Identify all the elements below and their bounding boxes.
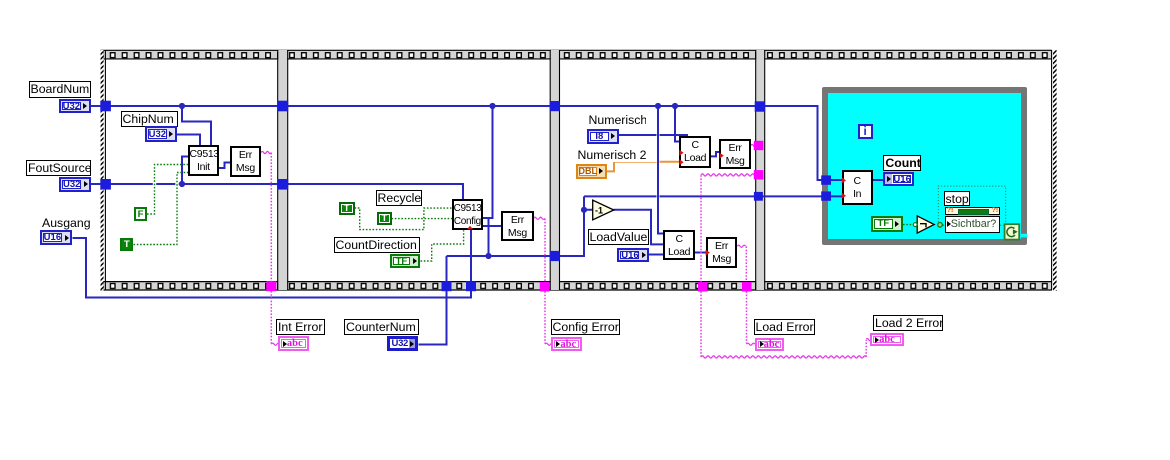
tunnel CounterNum sep34 — [754, 192, 763, 201]
tunnel Load2 Error bottom — [698, 282, 708, 292]
tunnel Ausgang bottom — [466, 281, 476, 291]
node Err Msg 2 frame3 — [706, 237, 737, 268]
red input arrow C Load1 b — [679, 159, 683, 165]
control terminal ChipNum U32 — [145, 126, 177, 141]
node C In — [842, 170, 873, 204]
label stop — [944, 191, 971, 207]
frame separator 1|2 — [278, 50, 288, 290]
indicator terminal Count U16 — [883, 172, 914, 186]
wire C9513 Config to Err Msg — [483, 225, 502, 227]
wire decrement to C Load 2 — [614, 210, 665, 245]
wire Recycle T to C9513 Config — [392, 218, 453, 220]
node Err Msg frame1 — [230, 146, 262, 177]
flat sequence structure: top film band — [101, 50, 1053, 59]
indicator terminal Load 2 Error abc — [870, 333, 904, 347]
wire BoardNum branch to C Load 2 — [658, 106, 664, 234]
tunnel CounterNum sep23 — [550, 251, 560, 261]
control label BoardNum — [29, 81, 92, 98]
tunnel BoardNum left border — [100, 101, 111, 112]
error wire Config ErrMsg to Config Error — [534, 217, 554, 345]
boolean constant T2 frame2 — [377, 212, 392, 225]
tunnel BoardNum sep12 — [278, 101, 289, 112]
indicator Sichtbar? — [945, 216, 1000, 234]
wire LoadValue to C Load 2 — [649, 254, 664, 256]
tunnel BoardNum sep34 — [755, 101, 765, 111]
red input arrow C In b — [842, 193, 846, 199]
control terminal Numerisch 2 DBL — [576, 164, 607, 179]
tunnel error sep34 upper — [754, 141, 764, 150]
wire BoardNum branch to C Load 1 — [675, 106, 680, 142]
tunnel Int Error bottom — [266, 281, 276, 291]
control label ChipNum — [121, 111, 178, 127]
node Err Msg frame2 — [501, 211, 534, 242]
red input arrow Err Msg1 — [720, 153, 724, 159]
control label Ausgang — [40, 215, 91, 231]
junction dots — [179, 103, 678, 259]
tunnel Config Error bottom — [540, 282, 550, 292]
wire TF to NOT gate — [903, 224, 913, 226]
wire boolean T to C9513 Init — [134, 173, 189, 245]
iteration terminal i — [858, 124, 873, 139]
red input arrow C Load1 a — [679, 150, 683, 156]
error wire tunnel to Load 2 Error — [701, 174, 871, 358]
boolean constant T1 frame2 — [339, 202, 355, 215]
while loop — [822, 87, 1027, 245]
stop cluster dotted frame — [938, 186, 1005, 225]
wire CounterNum net — [419, 196, 843, 344]
control terminal LoadValue U16 — [617, 248, 649, 263]
wire Numerisch I8 to C Load 1 — [619, 135, 688, 138]
tunnel FoutSource left border — [100, 179, 111, 190]
indicator terminal CounterNum U32 — [387, 336, 418, 351]
wire C Load 1 to Err Msg — [711, 152, 721, 156]
stop boolean bar — [945, 207, 1000, 215]
tunnel CounterNum bottom — [442, 281, 452, 291]
wire BoardNum main (U32) — [91, 105, 843, 180]
wire Numerisch 2 DBL to C Load 1 — [606, 162, 680, 172]
indicator terminal Load Error abc — [755, 338, 785, 352]
red input arrow C In a — [842, 177, 846, 183]
node Err Msg 1 frame3 — [719, 139, 750, 170]
frame separator 2|3 — [550, 50, 559, 290]
control label FoutSource — [26, 160, 91, 176]
wire BoardNum branch to C9513 Init — [182, 106, 211, 146]
wire boolean T1 to C9513 Config — [355, 208, 453, 230]
boolean terminal TF loop — [871, 216, 903, 232]
wire FoutSource (U32) — [91, 157, 464, 200]
error wire Load2 ErrMsg to Load Error — [737, 245, 755, 345]
indicator label Load Error — [754, 319, 815, 335]
control terminal Numerisch I8 — [587, 129, 619, 144]
node C Load 2 — [663, 230, 695, 261]
wire BoardNum branch to C9513 Config — [483, 106, 493, 256]
wire NOT gate to Sichtbar — [942, 224, 945, 226]
control terminal CountDirection TF — [390, 254, 421, 269]
wire boolean F to C9513 Init — [147, 165, 188, 215]
control label Numerisch 2 — [576, 147, 657, 163]
wire C Load 2 to Err Msg — [695, 252, 707, 254]
error wire Load1 ErrMsg to tunnel — [751, 144, 756, 146]
wire C In to Count — [873, 179, 885, 181]
tunnel FoutSource sep12 — [278, 179, 289, 190]
frame separator 3|4 — [756, 50, 765, 290]
loop condition terminal — [1005, 224, 1020, 239]
wire ChipNum to C9513 Init — [176, 135, 200, 147]
wire CountDirection to C9513 Config — [421, 230, 464, 261]
tunnel loop left 2 — [821, 191, 831, 200]
flat sequence structure: left zigzag edge — [101, 50, 106, 291]
indicator terminal Config Error abc — [551, 337, 581, 351]
boolean constant F — [134, 207, 147, 220]
node C9513 Config — [452, 199, 484, 230]
indicator label Count — [883, 155, 921, 171]
wire C9513 Init to Err Msg — [219, 163, 231, 169]
node C Load 1 — [679, 136, 711, 168]
control label LoadValue — [588, 229, 649, 245]
indicator label Int Error — [276, 319, 325, 335]
NOT gate — [913, 216, 942, 233]
indicator label CounterNum — [344, 319, 419, 335]
control label Numerisch — [587, 112, 647, 128]
control terminal Ausgang U16 — [40, 230, 73, 245]
control terminal BoardNum U32 — [59, 99, 91, 114]
tunnel Load Error bottom — [742, 282, 752, 292]
control label CountDirection — [334, 237, 421, 253]
indicator terminal Int Error abc — [278, 336, 309, 350]
error wire Init ErrMsg to Int Error — [261, 151, 280, 345]
flat sequence structure: right zigzag edge — [1052, 50, 1057, 291]
node C9513 Init — [188, 145, 220, 176]
indicator label Load 2 Error — [873, 315, 943, 331]
red input arrow Err Msg2 — [706, 250, 710, 256]
tunnel loop left 1 — [821, 175, 831, 184]
tunnel BoardNum sep23 — [550, 101, 560, 111]
label Recycle — [376, 190, 422, 206]
flat sequence structure: bottom film band — [101, 281, 1053, 290]
boolean constant T frame1 — [120, 238, 133, 251]
red coercion dot C9513 Config — [467, 226, 473, 229]
wire Ausgang (U16) — [73, 230, 472, 298]
control terminal FoutSource U32 — [59, 177, 91, 191]
indicator label Config Error — [551, 319, 621, 335]
decrement node -1 — [593, 200, 614, 220]
tunnel error sep34 lower — [754, 170, 764, 179]
